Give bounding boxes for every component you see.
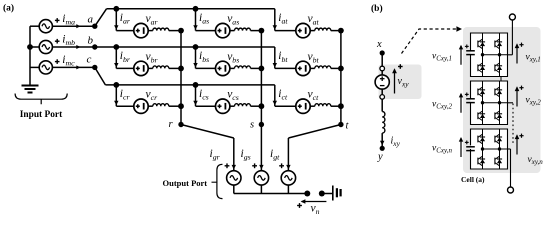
cell 1 transistor T2	[497, 42, 502, 46]
current arrow i_bs	[193, 63, 197, 68]
wire bus r	[180, 31, 182, 125]
wire drop i_cs	[195, 85, 197, 106]
dotted series connection	[512, 104, 514, 145]
wire bus to source Vmb	[30, 46, 40, 48]
wire drop i_gs	[260, 138, 262, 170]
dashed arrow to cell	[402, 29, 457, 54]
voltage arrow v_Cxy2	[460, 94, 462, 113]
wire source gs to rail	[260, 185, 262, 193]
wire inductor to y	[381, 133, 383, 146]
current arrow i_ma	[76, 24, 80, 28]
cell 1 interior	[471, 33, 508, 77]
wire branch ar	[116, 30, 134, 32]
node branch cr to bus	[178, 103, 184, 109]
battery ground	[332, 186, 334, 201]
wire source to inductor cs	[230, 105, 235, 107]
svg-text:b: b	[88, 35, 94, 47]
wire rail c	[105, 84, 274, 86]
inductor Lbr	[153, 66, 169, 68]
inductor Lcs	[235, 104, 251, 106]
cell 2 transistor T2	[497, 90, 502, 94]
wire cell1 output up	[508, 54, 513, 56]
wire terminal to source	[381, 71, 383, 75]
wire output rail	[234, 193, 307, 195]
cell 2 capacitor	[466, 98, 475, 100]
current arrow i_mc	[76, 65, 80, 69]
inductor L_xy	[382, 112, 385, 134]
wire inductor to bus ct	[331, 105, 341, 107]
cell n output wire	[483, 148, 508, 150]
node branch at to bus	[338, 28, 344, 34]
inductor Lct	[315, 104, 331, 106]
cell 1 output wire	[483, 54, 508, 56]
current arrow i_at	[273, 25, 277, 30]
plus sign gt	[279, 165, 284, 167]
wire source to node c	[52, 66, 95, 68]
node branch bs to bus	[259, 66, 265, 72]
svg-text:(b): (b)	[371, 3, 383, 14]
plus sign i_ma	[55, 19, 60, 21]
svg-text:Output Port: Output Port	[163, 178, 208, 188]
node rail c drop r	[113, 82, 119, 88]
node branch ar to bus	[178, 28, 184, 34]
current arrow i_cs	[193, 101, 197, 106]
voltage arrow v_Cxyn	[460, 138, 462, 157]
inductor Las	[235, 28, 251, 30]
cell 2 box	[471, 81, 508, 125]
node branch as to bus	[259, 28, 265, 34]
node vn right	[319, 191, 325, 197]
cell 1 leg2	[499, 33, 501, 77]
cell 1 box	[471, 33, 508, 77]
voltage arrow v_xy2	[516, 88, 518, 107]
svg-text:c: c	[87, 54, 92, 66]
wire branch as	[196, 30, 216, 32]
wire bus to source Vma	[30, 25, 40, 27]
cell n transistor T3	[480, 159, 485, 163]
output port tick	[212, 181, 217, 183]
svg-text:y: y	[377, 152, 383, 163]
plus sign v_xyn	[519, 135, 523, 137]
ac source Vgr	[227, 171, 241, 185]
plus sign i_mb	[55, 40, 60, 42]
wire bus s	[260, 31, 262, 125]
node rail c drop s	[193, 82, 199, 88]
current arrow i_ar	[114, 25, 118, 30]
wire source to inductor at	[310, 30, 315, 32]
voltage source v_as	[216, 23, 230, 37]
wire vn to battery	[322, 193, 333, 195]
cell n mid node	[481, 147, 484, 150]
current arrow i_xy	[380, 141, 384, 146]
current arrow i_gr	[232, 165, 236, 170]
node rail a drop s	[193, 6, 199, 12]
node branch br to bus	[178, 66, 184, 72]
plus sign v_xy2	[519, 87, 523, 89]
current arrow i_mb	[76, 45, 80, 49]
wire drop i_gt	[287, 138, 289, 170]
node vn left	[304, 191, 310, 197]
cell 1 capacitor	[466, 50, 475, 52]
plus sign i_mc	[55, 61, 60, 63]
wire drop i_at	[274, 9, 276, 31]
inductor Lbs	[235, 66, 251, 68]
wire inductor to bus br	[169, 67, 181, 69]
wire drop i_bs	[195, 47, 197, 68]
wire branch ct	[275, 105, 296, 107]
wire celln output	[508, 148, 511, 150]
terminal top of source	[380, 66, 385, 71]
cell n interior	[471, 129, 508, 169]
cell 1 transistor T4	[497, 66, 502, 70]
wire source gr to rail	[233, 185, 235, 193]
cell 2 transistor T4	[497, 114, 502, 118]
wire drop i_as	[195, 9, 197, 31]
wire source to node b	[52, 46, 95, 48]
cell stack shaded box	[463, 27, 541, 173]
node s	[259, 122, 264, 127]
plus sign gr	[225, 165, 230, 167]
node b	[92, 44, 97, 49]
wire inductor to bus cr	[169, 105, 181, 107]
wire source to node a	[52, 25, 95, 27]
wire drop i_ar	[115, 9, 117, 31]
wire source to inductor bt	[310, 67, 315, 69]
node t	[338, 122, 343, 127]
svg-text:x: x	[376, 39, 382, 50]
cell 2 output wire	[483, 102, 508, 104]
cell 1 leg1	[482, 33, 484, 77]
output port brace	[217, 164, 223, 198]
wire cell1 to cell2	[500, 77, 502, 82]
plus sign v_n	[297, 205, 302, 207]
wire branch at	[275, 30, 296, 32]
voltage arrow v_xyn	[516, 136, 518, 155]
current arrow i_bt	[273, 63, 277, 68]
wire terminal2 to inductor	[381, 99, 383, 111]
wire source to inductor as	[230, 30, 235, 32]
current arrow i_br	[114, 63, 118, 68]
cell n transistor T2	[497, 137, 502, 141]
wire inductor to bus bs	[251, 67, 262, 69]
plus sign v_xy	[398, 66, 403, 68]
voltage arrow v_xy1	[516, 45, 518, 64]
voltage source v_at	[296, 23, 310, 37]
inductor Lar	[153, 28, 169, 30]
wire bus to source Vmc	[30, 66, 40, 68]
wire rail a	[107, 8, 275, 10]
source shaded box	[379, 65, 422, 100]
wire source to inductor ct	[310, 105, 315, 107]
wire t to output	[288, 125, 341, 139]
node branch bt to bus	[338, 66, 344, 72]
inductor Lcr	[153, 104, 169, 106]
wire branch cr	[116, 105, 134, 107]
cell n leg2	[499, 129, 501, 169]
ac source Vmc	[39, 61, 52, 74]
cell n transistor T1	[480, 137, 485, 141]
cell n leg1	[482, 129, 484, 169]
svg-text:s: s	[250, 120, 254, 131]
voltage source v_br	[134, 61, 148, 75]
wire branch cs	[196, 105, 216, 107]
cell 2 leg1	[482, 81, 484, 125]
wire drop i_ct	[274, 85, 276, 106]
cell 2 transistor T3	[480, 114, 485, 118]
wire inductor to bus ar	[169, 30, 181, 32]
cell 1 transistor T1	[480, 42, 485, 46]
node x	[380, 50, 385, 55]
input port brace	[15, 94, 67, 105]
current arrow i_as	[193, 25, 197, 30]
node branch ct to bus	[338, 103, 344, 109]
wire source gt to rail	[287, 185, 289, 193]
cell n capacitor	[466, 146, 475, 148]
wire source to inductor ar	[148, 30, 153, 32]
node y	[380, 146, 385, 151]
terminal top	[509, 14, 515, 20]
voltage source v_ct	[296, 99, 310, 113]
node input bus junction	[27, 44, 33, 50]
cell 1 mid node	[481, 53, 484, 56]
plus sign gs	[252, 165, 257, 167]
wire inductor to bus at	[331, 30, 341, 32]
current arrow i_gt	[286, 165, 290, 170]
node a	[92, 24, 97, 29]
cell 2 leg2	[499, 81, 501, 125]
wire diagonal c to rail	[95, 67, 106, 85]
cell 1 transistor T3	[480, 66, 485, 70]
wire drop i_br	[115, 47, 117, 68]
wire r to output	[181, 125, 234, 139]
ac source Vgt	[281, 171, 295, 185]
wire drop i_cr	[115, 85, 117, 106]
terminal bottom of source	[380, 95, 385, 100]
node rail b drop r	[113, 44, 119, 50]
node rail a drop r	[113, 6, 119, 12]
cell 2 transistor T1	[480, 90, 485, 94]
wire branch bs	[196, 67, 216, 69]
svg-text:a: a	[88, 14, 94, 26]
ac source Vgs	[254, 171, 268, 185]
node rail b drop s	[193, 44, 199, 50]
wire s to output	[260, 125, 262, 139]
svg-text:Cell (a): Cell (a)	[461, 175, 485, 184]
node r	[178, 122, 183, 127]
wire source to inductor bs	[230, 67, 235, 69]
inductor Lbt	[315, 66, 331, 68]
current arrow i_ct	[273, 101, 277, 106]
svg-text:Input Port: Input Port	[20, 110, 63, 120]
wire branch bt	[275, 67, 296, 69]
voltage source v_bs	[216, 61, 230, 75]
voltage arrow v_n	[302, 201, 327, 203]
wire inductor to bus bt	[331, 67, 341, 69]
voltage source v_cr	[134, 99, 148, 113]
wire diagonal a to rail	[95, 9, 107, 26]
wire cell2 output	[508, 102, 514, 104]
wire x to terminal	[381, 53, 383, 66]
current arrow i_gs	[259, 165, 263, 170]
cell 2 interior	[471, 81, 508, 125]
wire drop i_gr	[233, 138, 235, 170]
wire source to inductor br	[148, 67, 153, 69]
dc source v_xy	[375, 75, 389, 89]
ac source Vmb	[39, 40, 52, 53]
wire branch br	[116, 67, 134, 69]
ac source Vma	[39, 20, 52, 33]
voltage arrow v_xy	[394, 70, 396, 94]
ground	[22, 85, 39, 87]
cell 2 mid node	[481, 101, 484, 104]
node c	[92, 65, 97, 70]
cell n box	[471, 129, 508, 169]
current arrow i_cr	[114, 101, 118, 106]
wire rail b	[95, 46, 275, 48]
wire source to terminal2	[381, 89, 383, 95]
voltage source v_bt	[296, 61, 310, 75]
svg-text:(a): (a)	[3, 3, 14, 14]
inductor Lat	[315, 28, 331, 30]
wire bus t	[340, 31, 342, 125]
terminal bottom	[508, 187, 514, 193]
voltage source v_cs	[216, 99, 230, 113]
node branch cs to bus	[259, 103, 265, 109]
wire inductor to bus as	[251, 30, 262, 32]
cell n transistor T4	[497, 159, 502, 163]
voltage source v_ar	[134, 23, 148, 37]
wire inductor to bus cs	[251, 105, 262, 107]
plus sign v_xy1	[519, 44, 523, 46]
voltage arrow v_Cxy1	[460, 46, 462, 65]
wire drop i_bt	[274, 47, 276, 68]
wire source to inductor cr	[148, 105, 153, 107]
wire input bus	[29, 26, 31, 85]
